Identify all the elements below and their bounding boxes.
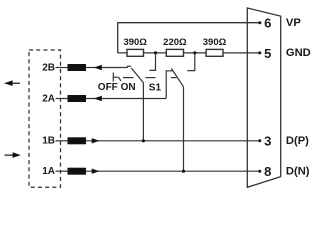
pin 8 dot — [258, 170, 261, 173]
arrow on wire 1B (pointing right) — [92, 138, 100, 143]
svg-text:VP: VP — [286, 17, 301, 29]
wire fixed contact from node A — [149, 53, 155, 71]
wire 1A label stub — [56, 170, 69, 172]
svg-text:ON: ON — [121, 82, 136, 93]
svg-text:3: 3 — [264, 134, 271, 149]
arrow on wire 1A (pointing right) — [92, 169, 100, 174]
wire 2B to switch — [86, 67, 128, 69]
wire fixed contact from node B — [187, 53, 195, 71]
wire switch pole 1 to node on 1B — [142, 83, 144, 141]
svg-text:8: 8 — [264, 164, 271, 179]
svg-text:1B: 1B — [42, 136, 55, 147]
switch S1 pole 2 blade — [171, 68, 183, 87]
svg-text:390Ω: 390Ω — [123, 37, 147, 48]
wire 2B label stub — [56, 67, 69, 69]
node B (R2/R3 junction) — [193, 51, 196, 54]
node A (R1/R2 junction) — [154, 51, 157, 54]
wire 2A label stub — [56, 98, 69, 100]
terminal 1A (screw terminal block) — [68, 168, 87, 175]
pin 3 dot — [258, 139, 261, 142]
wire VP rail (top) — [118, 23, 260, 53]
resistor R1 390Ω — [127, 49, 144, 56]
svg-text:5: 5 — [264, 46, 271, 61]
svg-text:D(P): D(P) — [286, 135, 309, 147]
switch S1 pole 1 fixed hook (2B side) — [128, 66, 132, 67]
terminal 2A (screw terminal block) — [68, 95, 87, 102]
wire 2A to switch riser — [86, 98, 166, 100]
wire switch pole 2 to node on 1A — [183, 87, 185, 171]
node D (switch pole 2 / 1A junction) — [182, 170, 185, 173]
terminal 2B (screw terminal block) — [68, 64, 87, 71]
svg-text:1A: 1A — [42, 166, 55, 177]
svg-text:S1: S1 — [149, 83, 162, 94]
wire 1A to pin 8 — [86, 170, 260, 172]
incoming bus arrow (left, pointing left) — [4, 80, 20, 86]
node C (switch pole 1 / 1B junction) — [142, 139, 145, 142]
pin 5 dot — [258, 51, 261, 54]
pin 6 dot — [258, 21, 261, 24]
svg-text:220Ω: 220Ω — [163, 37, 187, 48]
switch S1 coupling (dashed) — [123, 77, 134, 79]
terminal 1B (screw terminal block) — [68, 137, 87, 144]
svg-text:2A: 2A — [42, 93, 55, 104]
wire 2A riser to switch pole 2 — [166, 71, 172, 99]
arrow on wire 2A (pointing left) — [94, 96, 102, 101]
wire 1B to pin 3 — [86, 140, 260, 142]
svg-text:GND: GND — [286, 47, 311, 59]
svg-text:2B: 2B — [42, 62, 55, 73]
switch position indicator glyph — [113, 73, 121, 82]
svg-text:OFF: OFF — [98, 82, 118, 93]
arrow on wire 2B (pointing left) — [94, 65, 102, 70]
dashed terminal block outline — [29, 50, 61, 187]
svg-text:6: 6 — [264, 16, 271, 31]
wire resistor row (GND rail) — [118, 52, 260, 54]
switch S1 pole 1 blade — [131, 68, 143, 83]
svg-text:D(N): D(N) — [286, 165, 310, 177]
connector X1 (D-SUB body outline) — [247, 8, 280, 187]
svg-text:390Ω: 390Ω — [203, 37, 227, 48]
outgoing bus arrow (left, pointing right) — [5, 152, 21, 158]
resistor R2 220Ω — [166, 49, 183, 56]
resistor R3 390Ω — [206, 49, 223, 56]
wire 1B label stub — [56, 140, 69, 142]
